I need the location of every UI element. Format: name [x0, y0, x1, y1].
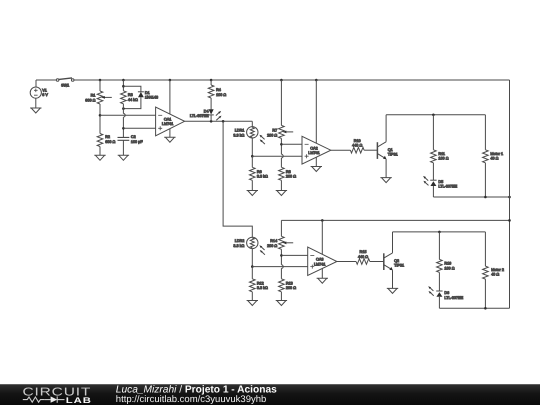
ground below OA2 — [311, 167, 322, 172]
wire OA1 plus input — [123, 127, 155, 129]
wire R2 to ground — [99, 147, 101, 156]
photoresistor LDR2 3.3 kohm — [233, 237, 265, 255]
svg-text:LTL-307EE: LTL-307EE — [438, 185, 457, 189]
node junction output at D4 — [210, 120, 213, 123]
svg-text:R14: R14 — [270, 239, 277, 243]
resistor R4 100 ohm — [208, 80, 226, 109]
svg-text:LTL-307EE: LTL-307EE — [190, 114, 209, 118]
wire OA1 V+ to top rail — [169, 80, 171, 114]
wire OA2 V- to ground — [315, 157, 317, 166]
diode D1 1N4148 — [123, 86, 158, 108]
LED D4 LTL-307EE — [190, 109, 222, 121]
svg-text:3.3 kΩ: 3.3 kΩ — [257, 175, 268, 179]
svg-text:R10: R10 — [354, 139, 361, 143]
ground below Q1 — [380, 178, 391, 183]
node junction R7-R8 to OA2 minus — [280, 143, 283, 146]
wire OA2 minus input — [281, 143, 302, 145]
resistor R8 200 ohm — [279, 167, 297, 190]
wire OA1 V- to ground — [169, 129, 171, 138]
svg-text:OA3: OA3 — [316, 258, 324, 262]
resistor R10 440 ohm — [350, 139, 364, 153]
svg-text:600 Ω: 600 Ω — [105, 140, 115, 144]
svg-text:OA1: OA1 — [164, 117, 172, 121]
wire R15 to Q2 base — [370, 261, 384, 263]
op-amp OA2 LM741 — [302, 136, 331, 164]
svg-text:Q2: Q2 — [394, 259, 399, 263]
motor Motor2 40 ohm — [483, 232, 504, 308]
resistor R11 100 ohm — [431, 115, 449, 180]
svg-text:600 Ω: 600 Ω — [85, 98, 95, 102]
resistor R16 100 ohm — [437, 232, 455, 291]
node junction motor1 rail to right vertical — [508, 196, 511, 199]
wire R7 to R8 with hop over plus wire — [281, 138, 283, 167]
svg-text:D1: D1 — [145, 91, 150, 95]
svg-text:100 µF: 100 µF — [131, 140, 143, 144]
node junction output to lower branch — [222, 120, 225, 123]
svg-text:3.3 kΩ: 3.3 kΩ — [233, 244, 244, 248]
svg-text:3.3 kΩ: 3.3 kΩ — [233, 133, 244, 137]
CircuitLab logo text LAB — [66, 396, 92, 405]
svg-text:200 Ω: 200 Ω — [286, 286, 296, 290]
wire OA2 plus input — [252, 155, 302, 157]
resistor R15 440 ohm — [356, 250, 370, 264]
svg-text:Motor 2: Motor 2 — [491, 268, 504, 272]
svg-text:D6: D6 — [444, 291, 449, 295]
wire LDR2 to node — [251, 249, 253, 267]
wire OA3 V+ to lower rail — [321, 220, 323, 254]
svg-text:V1: V1 — [42, 88, 47, 92]
wire Q1 collector rail — [386, 114, 485, 116]
node junction top rail at R7 — [280, 79, 283, 82]
resistor R14 200 ohm potentiometer — [267, 220, 293, 249]
svg-text:R7: R7 — [272, 129, 277, 133]
svg-text:440 Ω: 440 Ω — [358, 255, 368, 259]
svg-text:Q1: Q1 — [388, 148, 393, 152]
svg-text:LAB: LAB — [66, 396, 92, 405]
wire R14 to R13 with hop over plus wire — [281, 249, 283, 278]
svg-text:R6: R6 — [257, 170, 262, 174]
svg-text:R12: R12 — [257, 281, 264, 285]
svg-text:R15: R15 — [360, 250, 367, 254]
svg-text:100 Ω: 100 Ω — [216, 93, 226, 97]
footer black bar — [0, 384, 540, 405]
node junction LDR2-R12 — [251, 265, 254, 268]
ground below V1 — [30, 108, 41, 113]
wire OA2 output — [331, 149, 351, 151]
node junction top rail at R4 — [210, 79, 213, 82]
wire OA1 minus input — [100, 114, 156, 116]
svg-text:40 Ω: 40 Ω — [490, 157, 498, 161]
capacitor C2 100 uF — [118, 135, 144, 144]
wire output1 down to LDR2 — [223, 121, 252, 237]
node junction R3 top of D1 loop — [122, 85, 125, 88]
svg-text:40 Ω: 40 Ω — [491, 273, 499, 277]
node junction lower rail at OA3 V+ — [321, 219, 324, 222]
svg-text:100 Ω: 100 Ω — [444, 266, 454, 270]
wire R10 to Q1 base — [364, 149, 377, 151]
svg-text:TIP31: TIP31 — [394, 264, 404, 268]
LED D5 LTL-307EE — [423, 176, 457, 197]
node junction lower rail at right vertical — [508, 219, 511, 222]
svg-text:1N4148: 1N4148 — [145, 96, 158, 100]
svg-text:OA2: OA2 — [310, 146, 318, 150]
op-amp OA3 LM741 — [308, 247, 337, 275]
footer title line — [116, 385, 277, 405]
svg-text:200 Ω: 200 Ω — [267, 244, 277, 248]
node junction top rail at R3 — [122, 79, 125, 82]
svg-text:LDR2: LDR2 — [235, 239, 245, 243]
resistor R13 200 ohm — [279, 279, 297, 301]
node junction collector rail at R11 — [432, 114, 435, 117]
svg-text:R8: R8 — [286, 170, 291, 174]
svg-text:3.3 kΩ: 3.3 kΩ — [257, 286, 268, 290]
CircuitLab logo resistor-diode glyph — [23, 396, 65, 402]
svg-text:Motor 1: Motor 1 — [490, 152, 503, 156]
svg-text:200 Ω: 200 Ω — [267, 133, 277, 137]
LED D6 LTL-307EE — [428, 286, 463, 308]
ground below R13 — [276, 301, 287, 306]
wire OA1 output — [185, 120, 253, 122]
ground below R12 — [247, 301, 258, 306]
wire motor1 bottom rail — [433, 196, 509, 198]
node junction collector rail2 at R16 — [438, 231, 441, 234]
ground below OA1 — [164, 137, 175, 142]
node junction LDR1-R6 — [251, 155, 254, 158]
svg-text:6 V: 6 V — [42, 93, 48, 97]
svg-text:R2: R2 — [105, 135, 110, 139]
resistor R7 200 ohm potentiometer — [267, 125, 293, 138]
svg-text:R1: R1 — [91, 94, 96, 98]
photoresistor LDR1 3.3 kohm — [233, 127, 265, 145]
ground below R6 — [247, 191, 258, 196]
node junction top rail at OA1 V+ — [169, 79, 172, 82]
switch SW1 — [56, 78, 74, 87]
wire lower V+ rail — [281, 219, 509, 221]
svg-text:LM741: LM741 — [162, 122, 173, 126]
svg-text:LDR1: LDR1 — [235, 129, 245, 133]
ground below Q2 — [387, 288, 398, 293]
wire C2 to ground — [122, 140, 124, 155]
svg-text:200 Ω: 200 Ω — [286, 175, 296, 179]
voltage source V1 6 V — [30, 80, 48, 108]
motor Motor1 40 ohm — [483, 115, 504, 197]
wire OA3 output — [337, 261, 356, 263]
wire R1 branch upper — [99, 80, 101, 91]
svg-text:LTL-307EE: LTL-307EE — [444, 296, 463, 300]
wire R7 from top rail — [280, 80, 282, 125]
resistor R3 44 kohm — [121, 91, 138, 104]
svg-text:100 Ω: 100 Ω — [438, 157, 448, 161]
svg-text:R11: R11 — [438, 152, 445, 156]
node junction top rail at R1 — [99, 79, 102, 82]
svg-text:44 kΩ: 44 kΩ — [128, 98, 138, 102]
wire R1 to R2 — [99, 104, 101, 134]
resistor R1 600 ohm potentiometer — [85, 91, 112, 104]
svg-text:LM741: LM741 — [314, 262, 325, 266]
resistor R6 3.3 kohm — [250, 156, 269, 190]
transistor Q2 TIP31 — [384, 232, 404, 289]
op-amp OA1 LM741 — [156, 107, 185, 136]
wire top supply rail from SW1 to right side — [74, 79, 510, 81]
svg-text:R13: R13 — [286, 281, 293, 285]
transistor Q1 TIP31 — [377, 115, 397, 178]
svg-text:440 Ω: 440 Ω — [352, 144, 362, 148]
node junction top rail at OA2 V+ — [315, 79, 318, 82]
svg-text:D4: D4 — [204, 109, 209, 113]
svg-text:R4: R4 — [216, 88, 221, 92]
wire OA3 V- to ground — [321, 269, 323, 279]
wire OA3 plus input — [252, 266, 307, 268]
resistor R2 600 ohm — [97, 134, 115, 147]
node junction motor2 bottom — [484, 307, 487, 310]
wire top supply rail left segment from V1 to SW1 — [36, 79, 56, 81]
wire LDR1 to node — [251, 138, 253, 156]
CircuitLab logo text CIRCUIT — [23, 387, 92, 399]
wire R3 branch upper — [122, 80, 124, 91]
svg-text:R16: R16 — [444, 262, 451, 266]
svg-text:R3: R3 — [128, 93, 133, 97]
ground below OA3 — [317, 278, 328, 283]
wire OA3 minus input — [281, 254, 307, 256]
ground below R2 — [94, 155, 105, 160]
svg-text:C2: C2 — [131, 135, 136, 139]
ground below C2 — [118, 155, 129, 160]
svg-text:TIP31: TIP31 — [388, 153, 398, 157]
node junction R1-R2 to OA1 minus — [99, 114, 102, 117]
svg-text:LM741: LM741 — [308, 151, 319, 155]
node junction plus wire at C2 — [122, 127, 125, 130]
wire motor2 bottom rail — [439, 307, 509, 309]
svg-text:SW1: SW1 — [61, 83, 69, 87]
wire output to LDR1 — [251, 121, 253, 126]
svg-text:http://circuitlab.com/c3yuuvuk: http://circuitlab.com/c3yuuvuk39yhb — [116, 394, 266, 405]
resistor R12 3.3 kohm — [250, 267, 269, 301]
wire OA2 V+ to top rail — [315, 80, 317, 143]
node junction motor1 bottom — [484, 196, 487, 199]
wire R3 down with hop over minus wire — [123, 104, 125, 138]
node junction R14-R13 to OA3 minus — [280, 254, 283, 257]
svg-text:D5: D5 — [438, 180, 443, 184]
ground below R8 — [276, 191, 287, 196]
wire right side V+ vertical — [509, 80, 511, 308]
wire Q2 collector rail — [393, 231, 486, 233]
node junction R3 bottom of D1 loop — [122, 107, 125, 110]
